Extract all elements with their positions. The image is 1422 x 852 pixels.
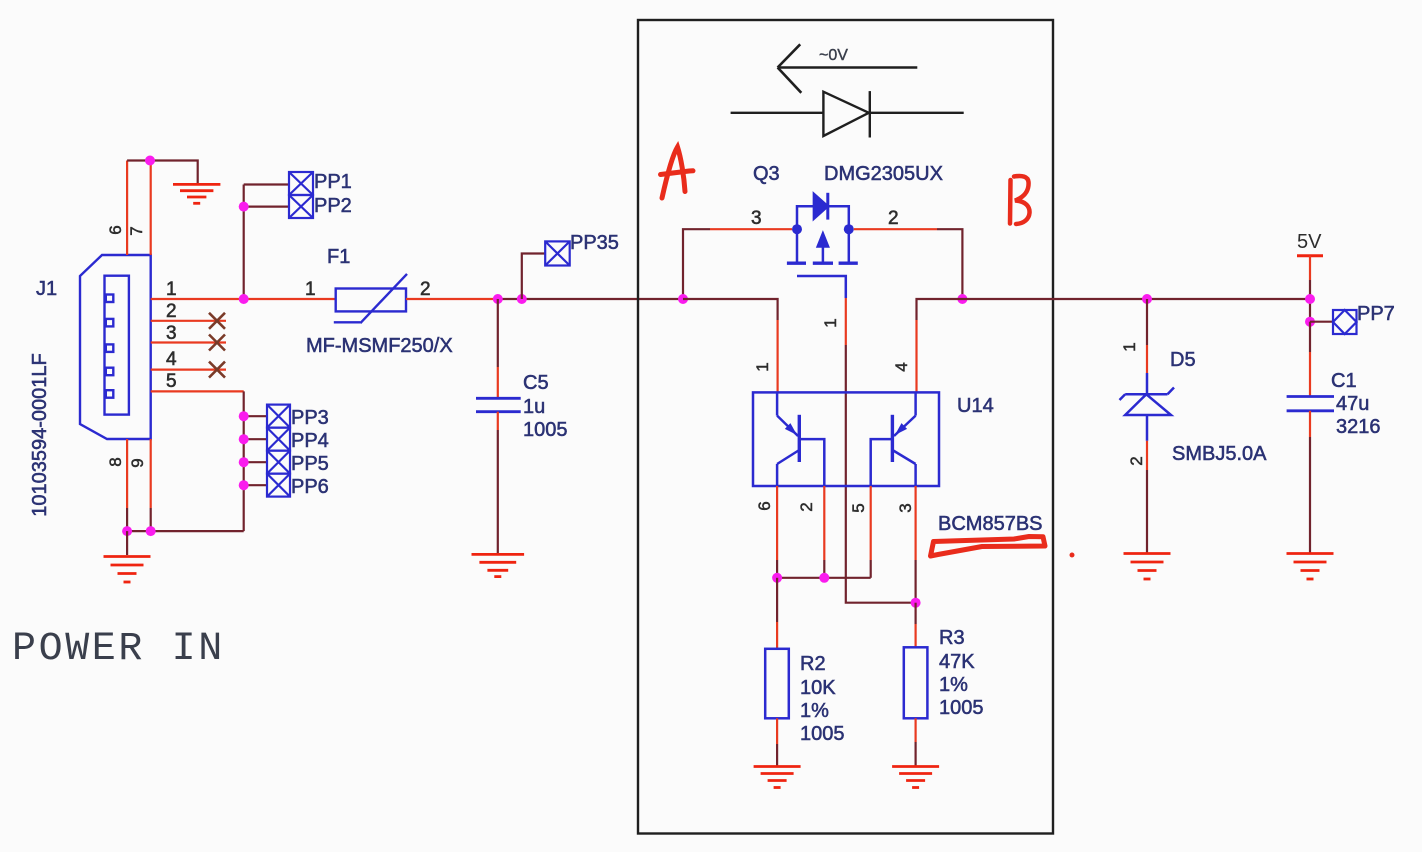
junction node B: [957, 294, 967, 304]
wire U14 pin5 down: [870, 486, 872, 560]
svg-text:5: 5: [849, 503, 868, 512]
Q3 terminal dot source: [792, 224, 802, 234]
wire J1 pin6: [126, 161, 128, 256]
svg-text:47K: 47K: [939, 651, 975, 673]
svg-text:MF-MSMF250/X: MF-MSMF250/X: [306, 335, 453, 357]
junction pin1 net: [239, 294, 249, 304]
wire PP1: [244, 183, 289, 185]
svg-text:10K: 10K: [800, 677, 836, 699]
wire C1 lower: [1309, 411, 1311, 437]
junction pin8: [122, 526, 132, 536]
svg-text:POWER IN: POWER IN: [12, 627, 225, 672]
junction PP7: [1305, 317, 1315, 327]
svg-text:R2: R2: [800, 653, 826, 675]
junction PP35: [517, 294, 527, 304]
svg-text:4: 4: [892, 362, 911, 371]
power symbol 5V: [1297, 254, 1323, 257]
ground C5: [472, 554, 525, 576]
no-connect X pin4: [209, 362, 225, 378]
junction pin9: [146, 526, 156, 536]
svg-text:5V: 5V: [1297, 231, 1322, 253]
svg-text:2: 2: [166, 301, 177, 322]
svg-text:1: 1: [753, 362, 772, 371]
svg-text:1: 1: [305, 279, 316, 300]
wire R3 to ground: [914, 718, 916, 742]
wire PP7: [1310, 321, 1333, 323]
junction PP2: [239, 202, 249, 212]
junction C5: [493, 294, 503, 304]
svg-text:PP35: PP35: [570, 232, 619, 254]
svg-text:2: 2: [420, 279, 431, 300]
capacitor C1: [1287, 397, 1334, 411]
wire pin5 down: [243, 391, 245, 531]
svg-text:PP2: PP2: [314, 195, 352, 217]
wire J1 pin3: [151, 341, 226, 343]
wire J1 pin8: [126, 439, 128, 508]
junction PP5: [239, 457, 249, 467]
U14 right PNP: [914, 392, 917, 415]
svg-text:2: 2: [1127, 456, 1146, 465]
wire C5 lower: [497, 412, 499, 430]
svg-text:F1: F1: [327, 246, 350, 268]
svg-text:1005: 1005: [939, 697, 984, 719]
fuse F1: [334, 274, 407, 323]
svg-text:J1: J1: [36, 278, 57, 300]
wire bus right side to U14 pin4: [917, 299, 1311, 320]
wire R2 to ground: [776, 718, 778, 744]
ground C1: [1287, 554, 1334, 580]
wire U14 pin3 down: [914, 486, 916, 560]
svg-text:2: 2: [888, 208, 899, 229]
wire D5 upper: [1146, 299, 1148, 345]
no-connect X pin3: [209, 335, 225, 351]
junction top-left: [145, 156, 155, 166]
ground bottom-left: [104, 557, 151, 583]
annotation red dot: [1070, 553, 1075, 558]
wire J1 pin4: [151, 369, 226, 371]
wire PP5: [244, 461, 267, 463]
svg-text:3: 3: [166, 323, 177, 344]
connector J1 body: [80, 255, 151, 439]
junction PP3: [239, 411, 249, 421]
wire to bottom-left ground: [126, 531, 128, 555]
svg-text:C5: C5: [523, 372, 549, 394]
svg-text:1005: 1005: [800, 723, 845, 745]
svg-text:R3: R3: [939, 627, 965, 649]
svg-text:DMG2305UX: DMG2305UX: [824, 163, 943, 185]
svg-text:1u: 1u: [523, 396, 545, 418]
svg-text:2: 2: [797, 502, 816, 511]
wire J1 pin1 to F1: [151, 298, 336, 300]
svg-text:9: 9: [128, 458, 147, 467]
wire bus to box: [498, 298, 683, 300]
wire to R3: [914, 603, 916, 624]
testpoint PP7: [1333, 310, 1357, 334]
junction gate/R3: [911, 598, 921, 608]
svg-text:PP1: PP1: [314, 171, 352, 193]
svg-text:47u: 47u: [1336, 393, 1369, 415]
wire J1 pin5: [151, 390, 244, 392]
wire PP1/PP2 down to pin1 net: [243, 185, 245, 300]
wire PP4: [244, 438, 267, 440]
junction node A: [678, 294, 688, 304]
wire PP35: [522, 254, 545, 300]
testpoint PP6: [267, 474, 290, 497]
svg-text:3216: 3216: [1336, 416, 1381, 438]
ground R3: [892, 767, 939, 788]
Q3 terminal dot drain: [844, 224, 854, 234]
ground top-left: [173, 184, 220, 203]
testpoint PP4: [267, 428, 290, 451]
svg-text:SMBJ5.0A: SMBJ5.0A: [1172, 443, 1267, 465]
Q3 symbol: [787, 193, 858, 298]
svg-text:PP4: PP4: [291, 430, 329, 452]
dual transistor U14: [753, 392, 939, 486]
wire 5V down: [1309, 256, 1311, 280]
wire bus into U14 pin1: [683, 299, 778, 320]
svg-text:4: 4: [166, 349, 177, 370]
wire U14 pin2 down: [823, 486, 825, 560]
wire J1 pin7: [150, 161, 152, 256]
wire J1 pin9: [150, 439, 152, 508]
wire Q3 pin2 right: [854, 228, 937, 230]
wire bottom-left bus: [127, 530, 244, 532]
ground R2: [754, 767, 801, 788]
annotation A (red): [661, 147, 694, 198]
wire C1 upper: [1309, 322, 1311, 352]
testpoint PP3: [267, 405, 290, 428]
junction 5V: [1305, 294, 1315, 304]
junction pin6: [772, 573, 782, 583]
wire F1 to C5 junction: [406, 298, 498, 300]
svg-text:6: 6: [755, 501, 774, 510]
svg-text:1%: 1%: [800, 700, 829, 722]
svg-text:5: 5: [166, 371, 177, 392]
svg-text:3: 3: [751, 208, 762, 229]
svg-text:PP7: PP7: [1357, 303, 1395, 325]
svg-text:1: 1: [1120, 342, 1139, 351]
svg-text:1: 1: [821, 318, 840, 327]
capacitor C5: [476, 398, 521, 411]
wire D5 lower: [1146, 441, 1148, 470]
wire PP3: [244, 415, 267, 417]
svg-text:1: 1: [166, 279, 177, 300]
junction PP4: [239, 434, 249, 444]
annotation B (red): [1010, 176, 1030, 224]
resistor R3: [904, 647, 928, 718]
annotation underline (red): [931, 537, 1046, 557]
junction pin2: [819, 573, 829, 583]
hand arrow ~0V: [778, 44, 918, 93]
ground D5: [1124, 554, 1171, 580]
svg-text:3: 3: [896, 503, 915, 512]
testpoint PP35: [545, 241, 570, 265]
zener diode D5: [1120, 373, 1175, 441]
wire J1 pin2: [151, 320, 226, 322]
junction D5: [1142, 294, 1152, 304]
testpoint PP2: [289, 195, 313, 218]
svg-text:7: 7: [127, 226, 146, 235]
svg-text:U14: U14: [957, 395, 994, 417]
wire C5 upper: [497, 299, 499, 367]
svg-text:BCM857BS: BCM857BS: [938, 513, 1043, 535]
wire PP2: [244, 206, 289, 208]
wire U14 pin6 down: [776, 486, 778, 560]
wire Q3 gate down: [845, 298, 847, 345]
svg-text:Q3: Q3: [753, 163, 780, 185]
resistor R2: [765, 649, 789, 719]
svg-text:~0V: ~0V: [819, 47, 848, 64]
junction PP6: [239, 480, 249, 490]
testpoint PP5: [267, 451, 290, 474]
U14 left PNP: [776, 392, 779, 415]
svg-text:PP6: PP6: [291, 476, 329, 498]
svg-text:6: 6: [106, 225, 125, 234]
wire PP6: [244, 484, 267, 486]
no-connect X pin2: [209, 313, 225, 378]
svg-text:PP3: PP3: [291, 407, 329, 429]
svg-text:D5: D5: [1170, 349, 1196, 371]
svg-text:1005: 1005: [523, 419, 568, 441]
wire top-left horizontal to ground: [127, 161, 198, 186]
hand diode symbol: [731, 91, 964, 137]
svg-text:10103594-0001LF: 10103594-0001LF: [29, 353, 51, 516]
wire to R2: [776, 578, 778, 622]
svg-text:C1: C1: [1331, 370, 1357, 392]
block box: [638, 20, 1053, 834]
wire Q3 pin3 left: [710, 228, 792, 230]
wire base net horizontal: [777, 577, 871, 579]
svg-text:1%: 1%: [939, 674, 968, 696]
testpoint PP1: [289, 172, 313, 195]
svg-text:PP5: PP5: [291, 453, 329, 475]
svg-text:8: 8: [106, 457, 125, 466]
